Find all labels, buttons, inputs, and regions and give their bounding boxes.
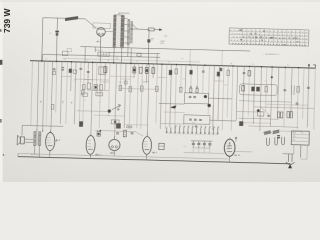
component small b7 [124, 81, 127, 84]
scan artifact top line [0, 0, 320, 3]
wire vertical drop 15 [95, 62, 98, 92]
resistor R22 with terminal [190, 86, 192, 88]
tube V4 AM2 indicator [109, 139, 120, 150]
resistor R28 [97, 132, 100, 137]
wire right h5 [236, 110, 260, 113]
wire vertical drop 26 [145, 64, 148, 83]
wire vertical drop 57 [307, 68, 309, 127]
wire vertical drop 9 [70, 62, 73, 91]
wire middle h5 [164, 111, 185, 114]
wire vertical upper f [116, 56, 118, 59]
node small 1 [100, 130, 101, 131]
wire antenna horizontal [43, 18, 85, 19]
capacitor C6 [202, 70, 205, 72]
wire vertical drop 10 [74, 62, 76, 124]
wire vertical drop 34 [180, 65, 183, 92]
coil winding column 4 [130, 22, 132, 43]
bus right end hook [313, 65, 315, 68]
component dark M5 [116, 123, 121, 128]
paper grain overlay [0, 0, 320, 182]
capacitor C13 [194, 118, 197, 120]
wire middle h2 [208, 97, 232, 100]
mains cable with plug [287, 154, 289, 162]
wire middle h4 [210, 119, 236, 122]
wire vertical drop 3 [43, 61, 45, 132]
paper edge tick 3 [0, 119, 2, 123]
junction dark [257, 109, 259, 111]
output transformer T1 [33, 132, 36, 146]
secondary bottom wire [18, 154, 228, 160]
capacitor C8 [284, 89, 287, 91]
heater loop pair 3 [282, 137, 285, 145]
wire coil right down [120, 48, 122, 63]
wire above tubes 2 [135, 132, 143, 136]
voltage table grid [229, 28, 309, 46]
coil winding column 1 [113, 15, 116, 47]
wire right h4 [248, 126, 298, 127]
short link i [119, 88, 159, 89]
resistor R12 [242, 86, 245, 91]
wire vertical drop 41 [218, 66, 219, 120]
short link b [84, 78, 92, 80]
wire speaker to transformer [24, 138, 33, 140]
wire stub V5 [146, 154, 148, 160]
wire transformer side [293, 145, 295, 154]
wire vertical drop 29 [156, 64, 158, 123]
wire transformer top [36, 129, 38, 131]
wire middle h3 [160, 122, 183, 125]
resistor R29 hatched [123, 130, 126, 137]
wire vertical drop 37 [196, 65, 199, 86]
short link d [121, 78, 131, 80]
coil winding column 3 [127, 20, 130, 45]
capacitor C14 [199, 118, 202, 120]
wire mixer to coil [105, 30, 113, 32]
wire vertical drop 5 [51, 61, 53, 132]
wire transformer bottom [33, 146, 35, 154]
switch contact marks [151, 39, 154, 40]
resistor R11 [248, 71, 251, 76]
box component B2 [87, 83, 90, 89]
wire vertical drop 55 [297, 68, 299, 129]
fuse symbol G [235, 137, 237, 139]
component dark X5 [251, 87, 255, 92]
wire vertical drop 56 [303, 68, 304, 119]
resistor R8 [152, 67, 155, 73]
capacitor C17 [277, 135, 280, 136]
box component M3 [111, 120, 119, 124]
capacitor C9 [307, 86, 310, 88]
resistor R26 [287, 111, 289, 117]
tube V5 AB2 [142, 137, 151, 155]
wire H2 [80, 47, 250, 51]
wire vertical drop 31 [165, 64, 167, 129]
table darker cell marks [255, 33, 257, 34]
power transformer box [291, 131, 309, 145]
box component B3 [94, 84, 98, 90]
resistor R18 [140, 86, 143, 91]
box component M1 [82, 93, 88, 96]
wire vertical drop 2 [37, 61, 39, 132]
heater loop pair 1 [267, 138, 270, 146]
resistor R19 [155, 86, 158, 91]
wire mains horizontal [283, 153, 294, 155]
resistor R24 [277, 112, 279, 118]
capacitor C5 [87, 70, 90, 72]
tone box 1 [184, 93, 208, 104]
resistor R5 [133, 67, 136, 73]
choke L2 [264, 130, 271, 135]
wire vertical upper c [41, 54, 43, 61]
wire vertical drop 58 [314, 68, 316, 129]
wire caps bottom [193, 147, 209, 149]
wire diagonal to mixer [85, 19, 97, 28]
wire right h1 [239, 101, 291, 102]
dark box B6 [239, 121, 243, 126]
wire coil col3 down [127, 46, 129, 57]
wire vertical drop 46 [243, 66, 245, 125]
wire caps stubs [193, 148, 210, 153]
component dark X3 [189, 70, 192, 74]
wire vertical drop 52 [277, 67, 278, 118]
wire vertical drop 43 [227, 66, 228, 117]
wire right diag [261, 107, 269, 114]
component dark X1 [69, 69, 72, 73]
capacitor C4 [79, 67, 82, 69]
wire vertical drop 47 [248, 66, 249, 115]
component dark X2 [169, 70, 172, 75]
resistor R27 [290, 111, 292, 117]
wire right h2 [254, 107, 315, 109]
box component B5 [257, 112, 264, 116]
component dark M4 [79, 121, 83, 126]
wire vertical drop 1 [31, 61, 33, 126]
resistor R15 [82, 85, 85, 90]
wire middle v1 [212, 105, 214, 120]
wire coil left down [113, 48, 115, 63]
component dark X4 [217, 72, 220, 77]
wire stub V2 [49, 151, 51, 158]
wire coil diagonal [131, 24, 137, 29]
wire vertical drop 8 [66, 62, 68, 124]
wire vertical drop 6 [56, 61, 57, 112]
wire V6 feed left [184, 152, 225, 153]
wire caps feed [191, 140, 212, 143]
wire vertical drop 28 [152, 64, 154, 78]
resistor R7 [145, 67, 148, 73]
resistor R17 [129, 87, 132, 92]
wire vertical upper d [130, 48, 132, 63]
band switch box [98, 52, 109, 56]
wire stub V6 [228, 156, 230, 162]
component box left of caps [159, 143, 165, 150]
wire V6 feed right [235, 150, 252, 152]
capacitor C15 [296, 102, 299, 104]
wire left bus drop [17, 154, 19, 157]
electrolytic capacitor C20 [192, 141, 194, 143]
dash marks near arrow [160, 41, 164, 43]
volume pot junction [108, 110, 111, 113]
coil core hatching [116, 16, 121, 47]
capacitor C12 [189, 118, 192, 120]
tube V1 AK2 mixer [97, 27, 106, 36]
loudspeaker [20, 137, 24, 144]
capacitor C18 [116, 132, 119, 134]
wire vertical drop 48 [253, 67, 254, 124]
indicator dot [204, 95, 207, 98]
capacitor C3 [62, 68, 64, 70]
tone box 2 [184, 115, 210, 124]
antenna coil L1 [65, 16, 78, 21]
wire mid h a [77, 110, 109, 113]
electrolytic capacitor C21 [198, 141, 200, 143]
coupling box [93, 23, 111, 29]
short link f [157, 76, 166, 78]
wire T5 anode [146, 132, 148, 137]
coil winding column 2 [120, 15, 124, 47]
wire vertical drop 27 [147, 64, 149, 136]
wire H4b [62, 58, 200, 62]
arrow pointer [171, 105, 177, 108]
wire right h3 [239, 118, 279, 119]
bus junction dots [41, 60, 299, 68]
tube V2 AL4 output [45, 132, 55, 150]
wire vertical upper b [94, 47, 96, 52]
wire right h8 [277, 130, 302, 133]
table text specks [230, 30, 307, 32]
wire vertical drop 51 [271, 67, 273, 126]
wire vertical drop 16 [99, 63, 101, 128]
electrolytic capacitor C22 [203, 141, 205, 143]
wire vertical drop 54 [291, 68, 292, 117]
wire vertical upper h [221, 50, 223, 65]
wire vertical drop 49 [260, 67, 262, 131]
wire speaker drop [21, 125, 23, 135]
table cross marks row [243, 36, 298, 40]
resistor R21 [51, 104, 54, 109]
wire vertical drop 22 [129, 63, 131, 129]
wire vertical drop 44 [231, 66, 233, 131]
wire vertical drop 38 [202, 65, 205, 93]
wire mid h b [94, 114, 125, 117]
volume pot arrow [112, 104, 121, 110]
short link c [100, 81, 109, 83]
resistor R2 [137, 53, 141, 56]
wire vertical drop 40 [213, 66, 215, 131]
wire vertical drop 13 [87, 62, 90, 83]
wire vertical drop 23 [133, 63, 135, 77]
wire heater pair [290, 85, 292, 94]
wire vertical antenna drop [42, 18, 43, 61]
capacitor C10 [189, 95, 192, 97]
capacitor C19 [131, 132, 134, 134]
wire vertical drop 20 [119, 63, 122, 90]
wire vertical drop 45 [236, 66, 237, 120]
wire vertical drop 32 [170, 64, 172, 127]
wire vertical upper a [84, 47, 86, 62]
wire right h6 [266, 104, 308, 105]
wire vertical from R1 node [147, 29, 150, 63]
short link g [214, 80, 223, 82]
resistor R9 [175, 69, 178, 74]
wire middle h1 [159, 102, 184, 105]
resistor R1 [148, 28, 154, 31]
wire vertical upper g [189, 49, 191, 64]
box component B4 [99, 85, 102, 91]
wire vertical drop 50 [266, 67, 267, 111]
box above bus 2 [67, 49, 71, 52]
wire mid h c [124, 123, 148, 126]
tube V6 AZ1 rectifier [224, 139, 235, 156]
resistor R23 with terminal [196, 86, 198, 88]
resistor R6 [139, 67, 142, 73]
switch feed stubs [175, 124, 218, 128]
wire vertical with C1 [56, 18, 57, 62]
capacitor C2 blob [147, 39, 150, 42]
terminal circles M6 [126, 126, 128, 128]
electrolytic capacitor C23 [209, 141, 211, 143]
wire vertical drop 7 [60, 62, 62, 124]
wire vertical drop 25 [141, 64, 143, 129]
wire vertical drop 39 [208, 65, 209, 114]
resistor R14 [297, 86, 300, 92]
IF can box [99, 67, 106, 75]
resistor R13 [265, 86, 268, 92]
wire above tubes 1 [95, 131, 135, 132]
wire transformer down [299, 145, 301, 158]
wire arrow right of R1 [154, 29, 161, 31]
wire vertical drop 18 [109, 63, 110, 116]
capacitor C7 [243, 72, 246, 74]
terminal node right [308, 66, 310, 68]
capacitor C1 [55, 31, 59, 33]
main HT bus wire [30, 61, 315, 68]
capacitor C11 [193, 95, 196, 97]
wire vertical drop 33 [175, 65, 177, 130]
wire vertical drop 12 [83, 62, 85, 124]
wire vertical drop 11 [79, 62, 81, 121]
short link a [62, 75, 71, 77]
wire vertical drop 42 [222, 66, 224, 131]
component small b8 [81, 90, 84, 94]
choke L3 [273, 130, 280, 135]
capacitor CM1 [117, 108, 119, 110]
wire vertical drop 30 [160, 64, 162, 129]
wire vertical drop 36 [190, 65, 193, 86]
chassis bus wire [18, 157, 290, 164]
wire transformer right edge [306, 145, 308, 159]
rounded filter box [239, 84, 277, 96]
wire band h1 [74, 78, 110, 81]
wire vertical drop 35 [184, 65, 187, 93]
short link e [142, 80, 149, 82]
switch contact extra 1 [166, 127, 167, 133]
junction node [271, 76, 273, 78]
resistor R16 [119, 85, 122, 90]
pushbutton switch contact row [174, 126, 176, 133]
component dark X6 [256, 87, 260, 92]
wire vertical drop 4 [46, 61, 48, 126]
resistor R25 [280, 112, 282, 118]
short link h [87, 89, 109, 92]
wire vertical drop 24 [137, 64, 139, 129]
box above bus 1 [62, 51, 67, 56]
wire top of coil [115, 13, 129, 15]
resistor R20 [180, 87, 183, 92]
resistor R4 [104, 67, 107, 73]
tube V3 ABC1 [86, 136, 95, 155]
wire vertical upper e [156, 54, 158, 64]
box component M2 [96, 92, 103, 96]
wire stub V4 [113, 151, 115, 156]
capacitor pair above comb [195, 125, 197, 127]
heater loop pair 2 [275, 137, 278, 145]
wire vertical drop 19 [115, 63, 117, 139]
switch row base wire [167, 134, 218, 135]
wire speaker top feed [22, 125, 63, 126]
paper edge tick 2 [0, 60, 2, 65]
wire to resistor R1 [130, 28, 149, 30]
junction blob [208, 104, 211, 107]
switch contact extra 2 [170, 127, 171, 133]
wire H4 [109, 52, 160, 53]
paper edge tick 1 [0, 29, 2, 32]
wire H3 [43, 54, 160, 57]
capacitor C16 [267, 114, 270, 116]
resistor R10 [227, 70, 230, 75]
wire vertical drop 21 [124, 63, 126, 128]
wire vertical drop 14 [91, 62, 93, 135]
wire vertical drop 17 [104, 63, 107, 90]
wire vertical drop 53 [284, 67, 286, 126]
wire stub V3 [89, 154, 91, 158]
wire right h7 [243, 122, 271, 125]
wire band h2 [110, 75, 135, 78]
resistor R3 [53, 68, 56, 70]
coil taps [123, 18, 127, 43]
